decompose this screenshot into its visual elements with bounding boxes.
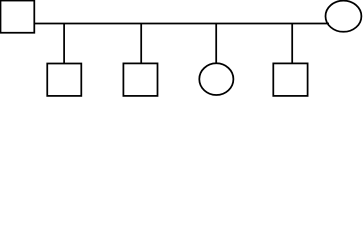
mother circle (top-right parent) [326, 1, 362, 32]
wire: drop line to child 4 [291, 24, 293, 64]
child 4 square [273, 63, 307, 96]
child 1 square [47, 64, 81, 96]
wire: couple horizontal line [34, 23, 329, 25]
child 2 square [123, 63, 157, 96]
child 3 circle [199, 63, 233, 95]
wire: drop line to child 1 [63, 24, 65, 64]
father square (top-left parent) [1, 1, 35, 33]
wire: drop line to child 2 [140, 24, 142, 64]
wire: drop line to child 3 [215, 24, 217, 64]
